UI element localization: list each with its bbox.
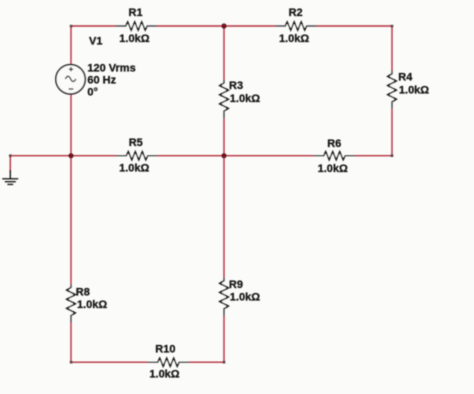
svg-text:R8: R8: [76, 286, 90, 298]
svg-text:R10: R10: [155, 343, 175, 355]
svg-text:V1: V1: [89, 36, 102, 48]
svg-text:1.0kΩ: 1.0kΩ: [279, 33, 309, 45]
svg-text:1.0kΩ: 1.0kΩ: [119, 163, 149, 175]
svg-text:R1: R1: [129, 7, 143, 19]
svg-text:R4: R4: [398, 71, 413, 83]
svg-text:1.0kΩ: 1.0kΩ: [230, 93, 260, 105]
svg-text:R2: R2: [289, 7, 303, 19]
svg-text:60 Hz: 60 Hz: [87, 75, 116, 87]
svg-text:0°: 0°: [87, 87, 98, 99]
svg-text:1.0kΩ: 1.0kΩ: [119, 33, 149, 45]
svg-text:R6: R6: [327, 138, 341, 150]
svg-text:1.0kΩ: 1.0kΩ: [149, 368, 179, 380]
svg-text:R3: R3: [229, 80, 243, 92]
svg-text:1.0kΩ: 1.0kΩ: [399, 84, 429, 96]
svg-text:120 Vrms: 120 Vrms: [87, 62, 135, 74]
svg-text:R9: R9: [229, 279, 243, 291]
svg-text:1.0kΩ: 1.0kΩ: [318, 163, 348, 175]
svg-text:R5: R5: [129, 137, 143, 149]
svg-text:1.0kΩ: 1.0kΩ: [230, 291, 260, 303]
svg-text:1.0kΩ: 1.0kΩ: [77, 299, 107, 311]
